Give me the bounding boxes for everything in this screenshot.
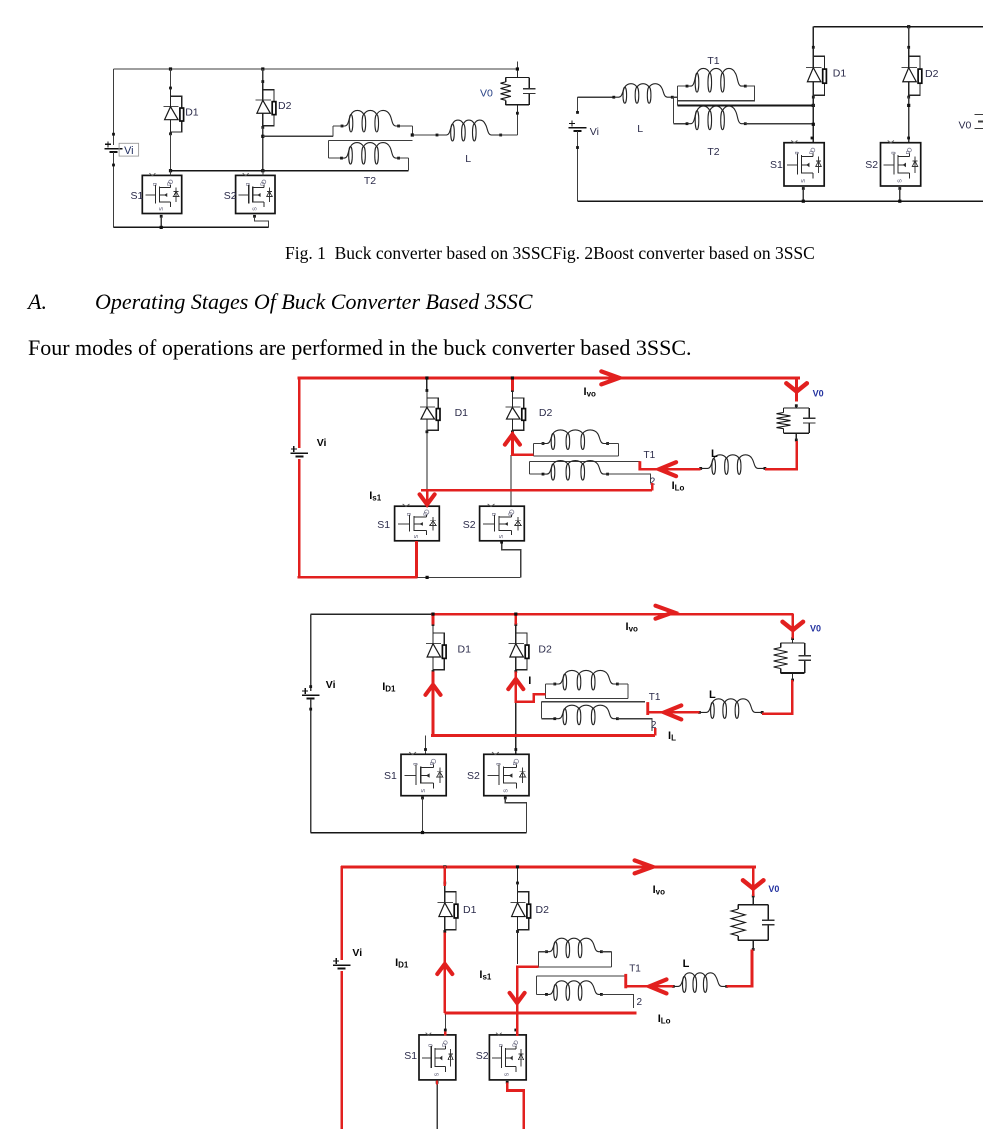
svg-text:S: S [505, 1072, 511, 1076]
svg-text:T2: T2 [364, 175, 376, 187]
svg-text:D2: D2 [536, 904, 550, 916]
svg-text:L: L [683, 958, 690, 970]
svg-text:Vi: Vi [590, 126, 599, 138]
svg-text:D2: D2 [278, 100, 292, 112]
svg-text:Vi: Vi [124, 145, 133, 157]
svg-text:ILo: ILo [658, 1013, 671, 1026]
svg-text:L: L [637, 123, 643, 135]
svg-text:Ivo: Ivo [584, 386, 597, 399]
svg-text:D1: D1 [458, 644, 472, 656]
svg-text:V0: V0 [810, 624, 821, 634]
svg-text:S1: S1 [131, 190, 144, 202]
svg-text:I: I [528, 675, 531, 687]
svg-text:S1: S1 [377, 519, 390, 531]
svg-text:L: L [711, 448, 718, 460]
svg-text:ID1: ID1 [395, 957, 409, 970]
svg-text:IL: IL [668, 730, 676, 743]
svg-text:T1: T1 [649, 692, 661, 703]
svg-text:ID1: ID1 [382, 681, 396, 694]
svg-text:Is1: Is1 [479, 969, 492, 982]
svg-text:D2: D2 [539, 407, 553, 419]
svg-text:V0: V0 [768, 884, 779, 894]
svg-text:ILo: ILo [672, 480, 685, 493]
svg-text:D1: D1 [185, 107, 199, 119]
svg-text:S1: S1 [770, 159, 783, 171]
svg-text:Ivo: Ivo [626, 621, 639, 634]
svg-text:Vi: Vi [317, 437, 327, 449]
svg-text:S1: S1 [404, 1050, 417, 1062]
svg-text:S: S [898, 179, 904, 183]
svg-text:V0: V0 [813, 388, 824, 398]
svg-text:L: L [709, 689, 716, 701]
svg-text:S: S [252, 207, 258, 211]
svg-text:S: S [504, 789, 510, 793]
svg-text:S1: S1 [384, 770, 397, 782]
svg-text:S: S [801, 179, 807, 183]
svg-text:S: S [159, 207, 165, 211]
svg-text:D2: D2 [925, 68, 939, 80]
svg-text:D2: D2 [538, 644, 552, 656]
svg-text:V0: V0 [959, 120, 972, 132]
svg-text:S: S [414, 535, 420, 539]
svg-text:S: S [434, 1072, 440, 1076]
svg-text:Vi: Vi [326, 679, 336, 691]
svg-text:V0: V0 [480, 88, 493, 100]
svg-text:2: 2 [637, 997, 643, 1008]
svg-text:Ivo: Ivo [653, 884, 666, 897]
svg-text:D1: D1 [455, 407, 469, 419]
svg-text:L: L [465, 153, 471, 165]
svg-text:T1: T1 [644, 450, 656, 461]
svg-text:S2: S2 [463, 519, 476, 531]
svg-text:S2: S2 [224, 190, 237, 202]
svg-text:T1: T1 [707, 55, 719, 67]
svg-text:Vi: Vi [352, 947, 362, 959]
svg-text:T1: T1 [629, 964, 641, 975]
svg-text:S: S [499, 535, 505, 539]
svg-text:S: S [421, 789, 427, 793]
svg-text:S2: S2 [476, 1050, 489, 1062]
svg-text:T2: T2 [707, 146, 719, 158]
svg-text:D1: D1 [463, 904, 477, 916]
svg-text:D1: D1 [833, 68, 847, 80]
svg-text:Is1: Is1 [369, 490, 382, 503]
svg-text:S2: S2 [467, 770, 480, 782]
svg-text:S2: S2 [865, 159, 878, 171]
